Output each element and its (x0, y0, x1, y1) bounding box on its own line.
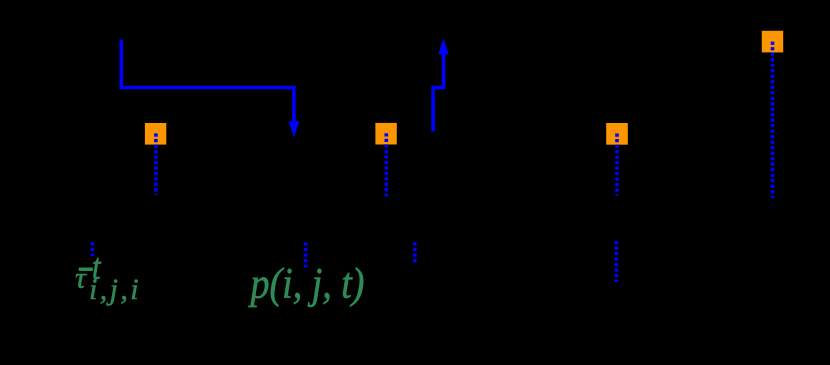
node label tau-bar^t_{i,j,i} (75, 246, 141, 306)
wire: dotted stub middle (304, 243, 308, 268)
wire: bent arrow going up (433, 38, 449, 131)
svg-text:p(i, j, t): p(i, j, t) (248, 259, 365, 307)
svg-text:τ: τ (75, 262, 87, 295)
ant marker A2 (orange square) (375, 123, 396, 145)
wire: dotted stub left (91, 243, 95, 257)
wire: dotted pheromone trail under A4 (771, 42, 775, 198)
wire: dotted pheromone trail under A3 (lower) (615, 241, 619, 282)
wire: dotted pheromone trail under A1 (154, 133, 158, 195)
svg-text:i,j,i: i,j,i (89, 273, 141, 306)
wire: bent arrow from node i(t) down to node j(t+1) (121, 40, 299, 138)
ant marker A4 (orange square, top right) (762, 31, 783, 53)
ant marker A3 (orange square) (606, 123, 628, 145)
wire: dotted stub right (413, 243, 417, 264)
wire: dotted pheromone trail under A3 (upper) (615, 134, 619, 196)
wire: dotted pheromone trail under A2 (384, 133, 388, 196)
ant marker A1 (orange square) (145, 123, 166, 145)
